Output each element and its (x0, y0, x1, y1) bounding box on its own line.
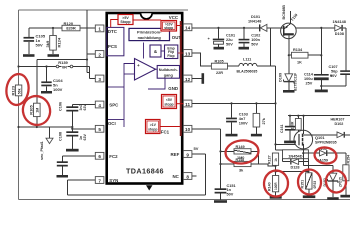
ground C114 (315, 90, 328, 93)
resistor R138 27k (253, 103, 266, 133)
svg-text:R105: R105 (215, 59, 224, 63)
svg-text:4: 4 (98, 103, 101, 108)
wire pin8 stub (192, 175, 197, 177)
wire purple pin3 input (108, 64, 135, 128)
svg-text:50V: 50V (36, 42, 43, 47)
capacitor C114 (304, 73, 333, 90)
svg-text:VCC: VCC (169, 15, 179, 20)
svg-text:1N4148: 1N4148 (333, 20, 346, 24)
red circle D152 (325, 169, 348, 194)
svg-text:SYN: SYN (109, 178, 118, 183)
svg-text:3k9: 3k9 (45, 40, 50, 47)
svg-text:22u: 22u (226, 38, 233, 42)
svg-text:REF: REF (171, 152, 180, 157)
pin 5 (95, 121, 115, 132)
wire pin4 (72, 104, 95, 106)
wire x=321.3 (320, 28, 322, 74)
resistor R149 1M0 (221, 145, 259, 164)
capacitor C104 (41, 67, 63, 92)
capacitor C107 (320, 28, 350, 87)
pin 8 (173, 173, 192, 180)
op-amp U1 IC TDA16846 body (107, 13, 183, 191)
svg-text:stopp: stopp (164, 103, 173, 107)
capacitor C113 pin6 (57, 156, 96, 175)
pin 10 (161, 125, 192, 134)
diode D108 1N4148 (333, 20, 346, 36)
svg-text:C114: C114 (304, 73, 314, 77)
capacitor C102 (239, 28, 261, 47)
svg-text:50V: 50V (330, 74, 337, 78)
svg-text:NC: NC (173, 174, 180, 179)
svg-text:8: 8 (186, 174, 189, 179)
resistor R124 (45, 28, 62, 54)
svg-text:27k: 27k (262, 117, 266, 124)
resistor R140 (267, 176, 278, 197)
block Nulldurchgang (157, 66, 179, 79)
svg-text:5V: 5V (194, 146, 199, 151)
svg-text:4n7: 4n7 (239, 117, 246, 121)
svg-text:22R: 22R (216, 71, 223, 75)
svg-text:FC2: FC2 (109, 154, 118, 159)
diode D109 zener (279, 55, 298, 91)
svg-text:D128: D128 (290, 166, 299, 170)
jumper R139 0R (17, 60, 89, 69)
svg-text:sec_Pfad1: sec_Pfad1 (40, 141, 44, 160)
svg-text:100R: 100R (274, 182, 278, 190)
svg-text:R127: R127 (267, 155, 271, 164)
ground R154 (340, 195, 350, 198)
wire flipflop to pin13 (161, 51, 183, 53)
inductor L111 (237, 58, 271, 74)
wire vertical x=87 pin2/pin3 net (86, 10, 95, 79)
svg-text:C108: C108 (59, 132, 63, 141)
label OUT (172, 35, 182, 40)
svg-text:1K: 1K (297, 61, 302, 65)
svg-text:R140: R140 (267, 182, 271, 191)
capacitor C108 (59, 126, 87, 149)
svg-text:56p: 56p (331, 69, 338, 73)
wire purple opamp out (156, 68, 158, 70)
wire drain net y=115.7 (288, 115, 350, 117)
svg-text:25V: 25V (306, 81, 313, 85)
svg-text:D109: D109 (279, 73, 283, 82)
diode D128 loop (276, 150, 309, 173)
svg-text:3: 3 (98, 77, 101, 82)
svg-text:Nulldurch-: Nulldurch- (159, 68, 179, 72)
red circle R140 (263, 170, 289, 198)
diode D101 1N4148 (248, 15, 267, 32)
diode D150 BA159 (302, 147, 346, 163)
svg-text:ZPD15: ZPD15 (338, 177, 342, 187)
red circle D150 (313, 146, 337, 165)
wire gate net (276, 143, 299, 145)
svg-text:Stopp: Stopp (120, 20, 131, 24)
svg-text:SPP02N80S5: SPP02N80S5 (315, 141, 337, 145)
svg-text:100V: 100V (239, 121, 248, 125)
svg-text:50V: 50V (227, 193, 234, 197)
svg-text:TDA16846: TDA16846 (126, 167, 164, 176)
svg-text:DTC: DTC (108, 29, 118, 34)
wire pin11 net y=103.4 (192, 102, 276, 104)
pin 9 (171, 151, 192, 158)
svg-text:nachbildung: nachbildung (138, 35, 162, 40)
svg-text:D108: D108 (335, 32, 344, 36)
purple box DTC/PCS (107, 27, 124, 55)
svg-text:1k: 1k (274, 158, 278, 162)
wire T110 base column (271, 28, 277, 150)
wire pin10 net (192, 129, 222, 189)
svg-text:Flop: Flop (167, 54, 174, 58)
resistor R120 (62, 21, 80, 31)
resistor R105b 22R (211, 59, 239, 75)
svg-text:9: 9 (186, 152, 189, 157)
red box >1V stopp (146, 120, 181, 134)
ground R140 (270, 196, 282, 199)
svg-text:100n: 100n (251, 38, 260, 42)
red circle R123 (4, 73, 30, 107)
svg-text:C161: C161 (280, 124, 284, 133)
wire pin14 VCC net y=27.9 (192, 27, 346, 29)
svg-text:50V: 50V (226, 42, 233, 46)
ground D152 (327, 197, 339, 200)
terminal pin12 (192, 73, 204, 84)
capacitor C151 (215, 184, 236, 200)
svg-text:10: 10 (185, 127, 191, 132)
ground C113 (57, 175, 69, 178)
svg-text:stopp: stopp (148, 128, 157, 132)
svg-text:1N4148: 1N4148 (248, 20, 261, 24)
svg-text:1n: 1n (227, 188, 232, 192)
pin 2 (95, 44, 117, 58)
wire left net rail (18, 10, 20, 199)
svg-text:FC1: FC1 (161, 130, 170, 135)
svg-text:R123: R123 (11, 85, 16, 95)
pin 13 (183, 50, 192, 57)
svg-text:7: 7 (98, 178, 101, 183)
resistor R148 3k (221, 158, 277, 173)
resistor R135 220R (291, 115, 302, 132)
wire bottom rail (19, 198, 350, 200)
pin 14 (169, 15, 192, 31)
svg-text:0R33: 0R33 (313, 181, 317, 189)
pin 1 (95, 25, 117, 34)
block Emp Flip Flop (165, 45, 178, 59)
red box >10V stopp (161, 21, 182, 32)
svg-text:Q101: Q101 (315, 135, 325, 140)
svg-text:1N454D: 1N454D (288, 153, 302, 158)
svg-text:SPC: SPC (109, 103, 119, 108)
svg-text:100V: 100V (53, 87, 63, 92)
pin 7 (95, 177, 118, 184)
svg-text:<5V: <5V (166, 98, 173, 102)
svg-text:OUT: OUT (172, 35, 182, 40)
ground C161 (284, 141, 296, 144)
wire R105 top net y=59.5 (37, 60, 87, 104)
svg-text:L111: L111 (243, 58, 251, 62)
wire pin13 net (192, 53, 212, 66)
op-amp comparator (135, 59, 156, 81)
svg-text:6: 6 (98, 154, 101, 159)
svg-text:C103: C103 (239, 113, 248, 117)
svg-text:C106: C106 (59, 102, 63, 111)
ground C104 (41, 91, 52, 94)
svg-text:R154: R154 (346, 155, 350, 164)
svg-text:GND: GND (168, 86, 178, 91)
pin 11 (183, 100, 192, 107)
ground C101 (214, 47, 225, 50)
capacitor C101 (208, 28, 236, 47)
svg-text:100u: 100u (304, 77, 313, 81)
svg-text:R105: R105 (28, 104, 33, 114)
svg-text:BZT55C21F: BZT55C21F (294, 73, 298, 91)
svg-text:12: 12 (185, 77, 191, 82)
svg-text:D102: D102 (335, 122, 344, 126)
ground C108 (66, 149, 79, 152)
node maroon bus (180, 21, 182, 136)
svg-text:+: + (137, 63, 140, 68)
svg-text:BLA2506035: BLA2506035 (237, 69, 258, 73)
red box <5V stopp (162, 95, 184, 109)
svg-text:PCS: PCS (108, 44, 117, 49)
svg-text:2: 2 (98, 52, 101, 57)
svg-text:820R: 820R (66, 26, 76, 31)
ground D109 (283, 90, 295, 93)
red circle R151 (297, 169, 322, 196)
wire pin1 net y=28 (29, 27, 96, 29)
svg-text:220R: 220R (291, 121, 295, 130)
wire pin7 SYN net (67, 180, 205, 195)
wire sec net y=127 (17, 126, 72, 128)
red box >5V Stopp (111, 15, 161, 28)
wire top net rail (19, 9, 189, 11)
svg-text:R151: R151 (300, 180, 304, 189)
resistor R134 (288, 48, 323, 65)
pin 12 (168, 75, 192, 91)
svg-text:1: 1 (98, 27, 101, 32)
capacitor C105 (24, 28, 46, 54)
svg-text:R149: R149 (236, 145, 245, 149)
red circle R149 (224, 139, 259, 165)
svg-text:D101: D101 (251, 15, 260, 19)
ground C102 (239, 47, 250, 50)
wire pin5 (71, 128, 95, 130)
ground C151 (214, 200, 227, 203)
svg-text:5: 5 (98, 127, 101, 132)
wire lower net y=165.7 (303, 153, 333, 166)
svg-text:stopp: stopp (164, 26, 173, 30)
pin 6 (95, 152, 118, 159)
block logic gate (150, 45, 161, 57)
capacitor C103 (226, 103, 248, 133)
svg-text:C151: C151 (227, 184, 236, 188)
svg-text:gang: gang (164, 73, 174, 77)
ground C103 (226, 134, 238, 137)
resistor R151 (300, 173, 316, 196)
svg-text:11: 11 (185, 102, 190, 107)
svg-text:>1V: >1V (150, 123, 157, 127)
block Primärstromnachbildung (129, 28, 170, 40)
svg-text:OCI: OCI (108, 121, 116, 126)
diode D102 HER107 (313, 117, 350, 137)
wire source net (276, 170, 310, 172)
ground R151 (303, 195, 316, 198)
resistor R105 1M (28, 103, 40, 127)
red circle R105 (19, 93, 54, 129)
svg-text:63V: 63V (83, 134, 87, 141)
svg-text:0R: 0R (62, 64, 67, 69)
capacitor C161 (280, 115, 295, 141)
svg-text:1M: 1M (35, 108, 39, 113)
wire purple opamp feed (143, 43, 145, 59)
wire purple pin5 input (108, 119, 124, 121)
svg-text:HER107: HER107 (331, 117, 345, 121)
wire pin9 5V net (192, 146, 206, 195)
transistor Q101 SPP02N80S5 (294, 115, 337, 154)
svg-text:BC848B: BC848B (282, 5, 286, 20)
ground R124 (48, 54, 60, 57)
svg-text:C101: C101 (226, 34, 235, 38)
svg-text:13: 13 (185, 51, 191, 56)
svg-text:R134: R134 (293, 48, 303, 52)
pin 3 (95, 75, 104, 82)
node sec_Pfad1 (40, 127, 53, 160)
svg-text:50V: 50V (251, 42, 258, 46)
ground C105 (23, 54, 35, 57)
svg-text:14: 14 (185, 26, 191, 31)
capacitor C106 (59, 102, 87, 131)
diode D152 zener (323, 166, 342, 198)
svg-text:C102: C102 (251, 34, 260, 38)
svg-text:R124: R124 (57, 37, 62, 47)
wire purple GND feed (148, 78, 165, 89)
resistor R123 (11, 85, 22, 96)
svg-text:56k: 56k (17, 88, 21, 94)
transistor T110 BC848B (281, 5, 299, 56)
pin 4 (95, 101, 119, 108)
resistor R127 1k (267, 153, 278, 176)
resistor R154 (343, 153, 350, 195)
ground R138 (251, 134, 262, 137)
